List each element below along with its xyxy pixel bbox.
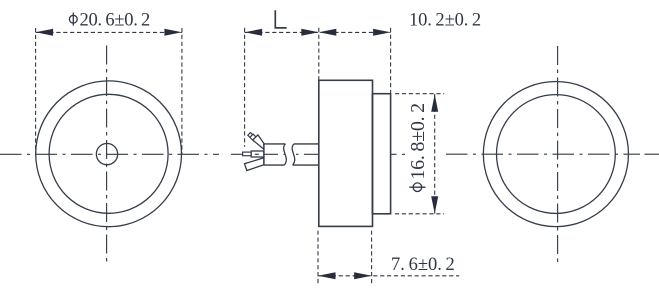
svg-text:16. 8±0. 2: 16. 8±0. 2 (407, 103, 429, 179)
svg-text:20. 6±0. 2: 20. 6±0. 2 (80, 10, 151, 30)
svg-text:7. 6±0. 2: 7. 6±0. 2 (391, 255, 455, 275)
svg-text:10. 2±0. 2: 10. 2±0. 2 (409, 10, 481, 30)
